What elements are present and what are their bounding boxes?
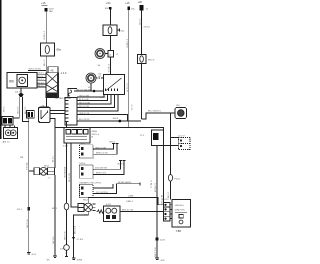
svg-text:SW 0.5 B: SW 0.5 B <box>27 219 29 228</box>
pin block rows to switch <box>77 95 104 98</box>
svg-text:GN 0.75: GN 0.75 <box>17 106 19 114</box>
wire long2 corner down to cluster <box>54 128 56 168</box>
pin labels A B 1 2 <box>3 140 11 143</box>
12V socket box <box>178 135 185 137</box>
row labels <box>79 95 91 121</box>
svg-text:1 4.0: 1 4.0 <box>61 71 67 75</box>
pin block X7 <box>55 98 62 100</box>
motor circles <box>5 130 11 136</box>
wire connector to switch <box>109 57 111 75</box>
svg-text:16 RD 1.5: 16 RD 1.5 <box>44 30 46 40</box>
wire from +15 down to flasher <box>45 11 47 43</box>
svg-text:BL 0.5 GN: BL 0.5 GN <box>79 99 89 101</box>
svg-text:BR 2 GN/GU 1: BR 2 GN/GU 1 <box>148 110 162 112</box>
wire cluster down to ground <box>54 175 56 256</box>
relay Y5 label <box>42 105 45 107</box>
wire down <box>109 10 111 25</box>
stubs into relay <box>66 121 68 128</box>
wire v3 from relay down to lamp <box>71 143 78 207</box>
svg-text:J11-1: J11-1 <box>17 209 23 211</box>
z-jog to J18 line <box>141 113 175 119</box>
svg-text:45PL ORD UPP05: 45PL ORD UPP05 <box>85 182 102 184</box>
wire label vertical <box>27 161 29 170</box>
bracket box left of switch <box>68 89 77 99</box>
svg-text:BRG 0.5 GN: BRG 0.5 GN <box>122 210 134 212</box>
stubs G9 to W4 <box>5 125 15 128</box>
svg-text:85a: 85a <box>57 48 62 52</box>
junction J1E3 <box>72 237 75 240</box>
svg-text:H 0.5 BL: H 0.5 BL <box>27 161 29 170</box>
long wire 1 <box>77 120 141 122</box>
svg-text:A.B 1.2: A.B 1.2 <box>3 140 11 143</box>
svg-text:T7 4: T7 4 <box>140 135 145 137</box>
node +15 top-left label <box>41 1 46 5</box>
dash-dot lead <box>96 77 104 79</box>
svg-text:BK 0.5: BK 0.5 <box>38 85 45 87</box>
horn H1 <box>95 49 105 59</box>
wire label WB <box>20 157 24 159</box>
svg-text:GN 0.5 GN: GN 0.5 GN <box>79 95 89 97</box>
svg-text:5-B-7: 5-B-7 <box>63 146 69 148</box>
svg-text:+15: +15 <box>125 1 130 5</box>
page edge bar <box>0 0 1 139</box>
wire J21 to feed <box>23 97 29 122</box>
svg-text:RD 0.5: RD 0.5 <box>38 82 45 84</box>
pin label 1 Y <box>48 178 52 180</box>
net ref H2O-6 <box>109 142 116 144</box>
svg-text:RD 0.5 B: RD 0.5 B <box>75 225 77 234</box>
svg-text:TC 75: TC 75 <box>132 104 134 110</box>
svg-text:BL 0.5: BL 0.5 <box>38 76 45 78</box>
ground G6 left <box>27 253 31 255</box>
svg-text:GR 0.5: GR 0.5 <box>38 79 45 81</box>
fuse W12 <box>138 55 146 64</box>
svg-text:MYTB 7.5: MYTB 7.5 <box>155 182 157 192</box>
warning unit K3 box <box>80 182 87 184</box>
wire flasher to 45 box <box>45 56 47 73</box>
ground G7B3 <box>72 258 76 260</box>
svg-text:+15: +15 <box>41 1 46 5</box>
svg-text:GB 0.75 GN GN: GB 0.75 GN GN <box>76 89 91 91</box>
wire label RD 1.5 <box>44 59 46 66</box>
relay box <box>39 107 50 122</box>
flasher value label <box>57 48 62 52</box>
text TW <box>60 97 71 100</box>
wire down to 12V socket <box>170 113 172 200</box>
wires W9 to block <box>28 69 46 71</box>
flasher oval <box>45 46 49 54</box>
svg-text:W 0.5 GN: W 0.5 GN <box>69 173 71 182</box>
wire label vertical 16RD <box>44 30 46 40</box>
connector 45 box <box>48 67 58 73</box>
svg-text:16 GR 15: 16 GR 15 <box>108 63 110 72</box>
svg-text:J21 1: J21 1 <box>15 91 21 93</box>
long wire 2 to 12V <box>50 119 55 128</box>
svg-text:0L4 2: 0L4 2 <box>100 97 106 99</box>
wire labels vertical <box>17 106 27 114</box>
wire down from W12 <box>140 64 142 120</box>
motor J18 <box>176 105 180 107</box>
svg-text:W12 4: W12 4 <box>148 60 155 62</box>
relay contact <box>41 110 48 119</box>
horn lead down <box>90 83 92 91</box>
svg-text:J123: J123 <box>160 240 166 242</box>
svg-text:24 9-0: 24 9-0 <box>144 27 151 29</box>
svg-text:12 V O: 12 V O <box>178 135 185 137</box>
connector G2/2 dot <box>44 8 47 11</box>
svg-text:RD 1.5: RD 1.5 <box>44 59 46 66</box>
wire v2 from relay down <box>66 143 68 257</box>
svg-text:=WN=ED=: =WN=ED= <box>175 205 185 207</box>
pump inner box <box>17 74 28 86</box>
svg-text:T-B5: T-B5 <box>176 229 182 233</box>
svg-text:15C: 15C <box>131 8 135 10</box>
pump W9 box <box>7 73 37 88</box>
svg-text:38 0.5: 38 0.5 <box>4 106 6 112</box>
FRD wire <box>88 198 163 205</box>
connector 40 box <box>27 111 35 118</box>
stack connector <box>162 199 169 201</box>
svg-text:4548/: 4548/ <box>92 131 98 133</box>
svg-text:H2O 6: H2O 6 <box>118 164 125 166</box>
svg-text:+54: +54 <box>106 1 111 5</box>
svg-text:TW 4.0 30A: TW 4.0 30A <box>60 97 71 100</box>
svg-text:SW 0.75 B: SW 0.75 B <box>155 247 157 257</box>
svg-text:TYTB 75: TYTB 75 <box>151 179 153 188</box>
svg-text:J51 B: J51 B <box>113 118 119 120</box>
node +15 right column <box>125 1 130 5</box>
connector M1-1 <box>52 208 58 210</box>
connector G9 box <box>2 117 13 125</box>
ground stub <box>65 256 68 258</box>
wire from 12V joint down <box>163 146 165 203</box>
svg-text:10 RD 1.5: 10 RD 1.5 <box>127 38 129 48</box>
svg-text:M1-1: M1-1 <box>52 208 58 210</box>
wire to switch <box>74 90 104 92</box>
svg-text:P10.2: P10.2 <box>175 178 181 180</box>
svg-text:BL 0.5: BL 0.5 <box>53 155 55 162</box>
lighter box T7 <box>140 135 145 137</box>
wire block to relay <box>46 98 48 108</box>
svg-text:W9: W9 <box>9 80 14 84</box>
fuse box <box>103 25 117 36</box>
hatched connector block <box>46 73 59 98</box>
svg-text:4GN 0.75 GN: 4GN 0.75 GN <box>29 69 42 71</box>
leads <box>29 170 34 172</box>
junction dot <box>93 90 96 93</box>
node J21 label <box>15 91 21 93</box>
lamp cluster H2-8 <box>44 166 50 168</box>
svg-text:(2W): (2W) <box>129 195 134 197</box>
pump circle <box>19 77 26 84</box>
resistor zigzag <box>97 210 105 213</box>
motor lead right <box>120 211 164 213</box>
svg-text:SW 0.5 B: SW 0.5 B <box>65 231 67 240</box>
wire label 38 0.5 <box>4 106 6 112</box>
switch lever <box>106 78 122 91</box>
amplifier T-B5 box <box>172 200 191 228</box>
ground G6 mid <box>53 256 57 258</box>
connector J2 on left wire <box>27 207 30 210</box>
wire labels vertical <box>64 166 77 240</box>
svg-text:+30: +30 <box>138 0 143 4</box>
wire label 16 GR <box>108 63 110 72</box>
svg-text:FRD-2: FRD-2 <box>127 201 134 203</box>
svg-text:G4 1: G4 1 <box>32 254 38 256</box>
svg-text:GN BA/DDA: GN BA/DDA <box>64 166 67 178</box>
row 6 to J51 line <box>77 115 128 122</box>
K3 pin wires <box>93 184 113 188</box>
node +30 column <box>138 0 143 4</box>
svg-text:30L 0.5: 30L 0.5 <box>139 18 141 25</box>
svg-text:RD 0.5 GN: RD 0.5 GN <box>79 106 89 108</box>
wire +15 down <box>128 10 130 128</box>
svg-text:RD 0.5: RD 0.5 <box>168 191 170 198</box>
wire tick at +15 <box>42 5 48 7</box>
wire fuse to connector <box>109 36 111 51</box>
wire labels <box>29 69 45 88</box>
node +54 top middle <box>106 1 111 5</box>
connector dot <box>109 7 112 10</box>
blower motor 4-D3 <box>106 204 112 206</box>
wire below lighter <box>156 146 158 259</box>
switch S1 box <box>104 75 125 95</box>
junction J123 <box>156 237 159 240</box>
connector P10.2 <box>168 175 172 182</box>
horn H2 <box>86 73 96 83</box>
junction J51 <box>113 118 119 120</box>
svg-text:GN 0.5: GN 0.5 <box>38 73 45 75</box>
ground G31 <box>155 258 159 260</box>
lamp cluster H2-3 <box>83 200 89 202</box>
K2 pin wires <box>93 161 122 170</box>
svg-text:SPCL 4: SPCL 4 <box>92 134 100 136</box>
wires relay to pin block <box>50 110 65 112</box>
svg-text:GRB 0.5 BL: GRB 0.5 BL <box>79 113 91 115</box>
wire 40 box down to lamp <box>28 118 30 171</box>
warning unit K1 box <box>80 143 87 145</box>
wire J21 to G9 <box>13 97 19 118</box>
svg-text:J 1 E3: J 1 E3 <box>77 239 84 241</box>
fuse value 62a <box>121 30 125 32</box>
svg-text:=RNLPDE=: =RNLPDE= <box>175 210 186 212</box>
svg-text:SW 10.5: SW 10.5 <box>53 235 55 244</box>
12V socket pins <box>180 140 182 142</box>
motor W4 box <box>4 128 18 139</box>
node 36 label <box>98 65 101 67</box>
flasher unit box <box>41 43 55 56</box>
wire W9 to J21 <box>20 88 22 93</box>
cluster bottom lead <box>74 212 89 239</box>
connector 17W <box>60 249 65 251</box>
stack to box wires <box>170 205 172 219</box>
svg-text:H2-3: H2-3 <box>83 200 89 202</box>
svg-text:GR 0.75 GN: GR 0.75 GN <box>79 102 91 104</box>
relay 4548 box <box>64 128 90 144</box>
svg-text:14 TC 7.5: 14 TC 7.5 <box>127 82 129 92</box>
svg-text:H-4 12: H-4 12 <box>162 199 169 201</box>
horn H1 label <box>99 76 103 78</box>
warning unit K2 box <box>80 163 86 165</box>
connector on wire <box>108 51 114 58</box>
svg-text:G7B3: G7B3 <box>77 260 83 262</box>
